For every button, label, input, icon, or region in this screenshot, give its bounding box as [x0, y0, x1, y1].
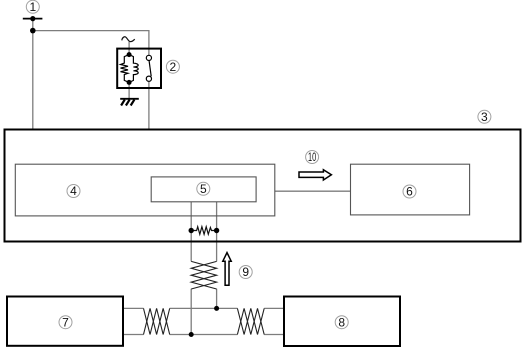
svg-text:2: 2 — [170, 60, 177, 74]
svg-text:9: 9 — [242, 265, 249, 279]
svg-text:8: 8 — [338, 315, 345, 329]
svg-text:4: 4 — [70, 184, 77, 198]
svg-text:3: 3 — [481, 110, 488, 124]
svg-text:5: 5 — [200, 182, 207, 196]
svg-text:6: 6 — [406, 185, 413, 199]
svg-text:1: 1 — [29, 0, 36, 14]
svg-text:10: 10 — [308, 152, 316, 164]
svg-text:7: 7 — [62, 315, 69, 329]
